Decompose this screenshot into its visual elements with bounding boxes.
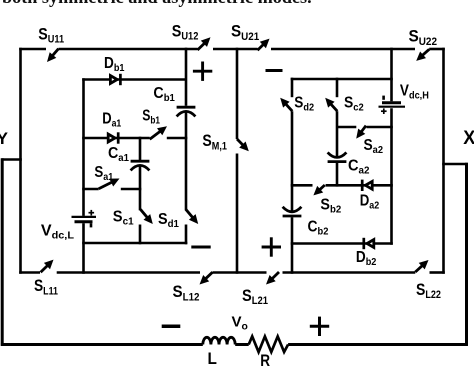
svg-text:SU11: SU11 (38, 25, 64, 46)
label S_a1 (94, 164, 113, 183)
svg-text:Sa2: Sa2 (364, 137, 384, 156)
switch S_L21 (266, 272, 279, 285)
label V_dc_H (400, 82, 429, 101)
label D_b2 (356, 249, 377, 268)
wire bottom rail (19, 271, 445, 274)
output plus (310, 317, 329, 336)
battery plus mark (89, 210, 95, 216)
label C_b2 (308, 219, 329, 238)
label S_d2 (294, 94, 314, 113)
battery V_dc,L (72, 217, 97, 222)
diode D_b2 (364, 238, 374, 249)
switch S_d1 (186, 209, 198, 224)
wire right module right conductor (442, 48, 445, 274)
wire Da1 Sb1 row (82, 137, 187, 140)
svg-text:Sd2: Sd2 (294, 94, 314, 113)
wire Sd1 lower (185, 225, 188, 245)
svg-text:L: L (208, 349, 217, 367)
wire Sd2 upper (291, 78, 294, 98)
switch S_L22 (415, 260, 428, 272)
svg-text:Ca2: Ca2 (348, 158, 370, 177)
wire top rail (19, 48, 445, 51)
svg-text:Cb1: Cb1 (153, 85, 175, 104)
label L (208, 349, 217, 367)
svg-text:Sc2: Sc2 (344, 95, 364, 114)
diode D_a2 (362, 180, 372, 191)
svg-text:Ca1: Ca1 (108, 145, 129, 164)
switch S_M1 (237, 139, 249, 151)
wire node X tap (442, 163, 468, 166)
svg-text:Da1: Da1 (102, 110, 121, 129)
capacitor C_b2 (283, 207, 302, 216)
svg-text:SL12: SL12 (173, 282, 200, 303)
svg-text:Db2: Db2 (356, 249, 377, 268)
label S_U12 (172, 21, 199, 42)
label S_L22 (416, 280, 441, 301)
svg-text:R: R (260, 351, 270, 367)
label D_b1 (104, 55, 125, 74)
svg-text:Sa1: Sa1 (94, 164, 113, 183)
svg-text:SL11: SL11 (34, 276, 58, 297)
switch S_b1 (150, 126, 167, 139)
label S_U21 (231, 22, 259, 43)
label V_dc_L (41, 223, 75, 242)
wire Ca2 bottom lead (336, 163, 339, 187)
label S_U22 (409, 27, 438, 48)
switch S_L11 (41, 260, 54, 273)
svg-text:Sb1: Sb1 (142, 108, 160, 127)
label S_c2 (344, 95, 364, 114)
wire Vdc_H top lead (390, 48, 393, 102)
wire Sd2 lower / Cb2 conductor (291, 111, 294, 212)
svg-text:Vdc,L: Vdc,L (41, 223, 75, 242)
wire Cb2 bottom lead (291, 217, 294, 273)
wire diode Db1 row (82, 78, 186, 81)
svg-text:Da2: Da2 (360, 193, 380, 212)
wire Cb1 top lead (185, 48, 188, 106)
diode D_a1 (108, 132, 118, 143)
wire internal rail left cell (82, 242, 187, 245)
wire left module left conductor (19, 48, 22, 274)
node Y label (0, 129, 9, 148)
svg-text:Sc1: Sc1 (113, 208, 134, 227)
wire load bottom left (1, 343, 203, 346)
label S_L11 (34, 276, 58, 297)
label S_L12 (173, 282, 200, 303)
module2 top minus (266, 69, 283, 72)
switch S_U12 (198, 37, 211, 50)
switch S_d2 (280, 98, 292, 111)
module2 bottom plus (262, 237, 281, 256)
wire internal top rail right cell (291, 78, 393, 81)
label C_a2 (348, 158, 370, 177)
label S_d1 (158, 211, 179, 230)
resistor R (249, 336, 288, 352)
node X label (463, 128, 474, 149)
inductor L (203, 337, 235, 344)
wire Ca1 top lead (139, 137, 142, 160)
label S_U11 (38, 25, 64, 46)
wire middle conductor upper (236, 48, 239, 139)
switch S_c2 (325, 98, 337, 111)
wire middle conductor lower (236, 154, 239, 274)
module1 minus (191, 245, 210, 248)
module1 plus (193, 62, 212, 81)
svg-text:Cb2: Cb2 (308, 219, 329, 238)
capacitor C_b1 (177, 107, 196, 116)
svg-text:Sd1: Sd1 (158, 211, 179, 230)
label Vo (232, 315, 248, 333)
wire Vdc_H bottom lead (390, 108, 393, 245)
caption text (clipped) (2, 0, 312, 8)
svg-text:Db1: Db1 (104, 55, 125, 74)
wire outer right (465, 163, 468, 346)
switch S_U11 (47, 49, 59, 62)
svg-text:Vo: Vo (232, 315, 248, 333)
label D_a2 (360, 193, 380, 212)
wire inner conductor left cell (82, 78, 85, 274)
switch S_b2 (313, 185, 324, 195)
battery H plus mark (381, 108, 387, 114)
label D_a1 (102, 110, 121, 129)
wire node Y tap (2, 158, 22, 161)
svg-text:X: X (463, 128, 474, 149)
capacitor C_a1 (131, 161, 150, 170)
label S_b2 (320, 197, 341, 216)
wire outer left (1, 158, 4, 346)
switch S_c1 (140, 209, 152, 224)
wire Sa1 row (82, 188, 141, 191)
label S_c1 (113, 208, 134, 227)
switch S_a2 (356, 126, 366, 139)
label S_b1 (142, 108, 160, 127)
output minus (162, 325, 181, 329)
label C_a1 (108, 145, 129, 164)
label S_M1 (202, 131, 227, 152)
diode D_b1 (110, 74, 120, 85)
svg-text:SU21: SU21 (231, 22, 259, 43)
svg-text:SU22: SU22 (409, 27, 438, 48)
label S_L21 (242, 286, 268, 307)
svg-text:Y: Y (0, 129, 9, 148)
svg-text:SM,1: SM,1 (202, 131, 227, 152)
svg-text:SU12: SU12 (172, 21, 199, 42)
svg-text:Vdc,H: Vdc,H (400, 82, 429, 101)
wire Sc1 lower (139, 225, 142, 245)
switch S_U21 (258, 39, 270, 51)
svg-text:SL21: SL21 (242, 286, 268, 307)
label C_b1 (153, 85, 175, 104)
label S_a2 (364, 137, 384, 156)
wire Sa2 row (337, 126, 393, 129)
battery V_dc,H (379, 103, 406, 107)
wire load bottom right (288, 343, 468, 346)
svg-text:SL22: SL22 (416, 280, 441, 301)
wire Cb1 bottom lead (185, 111, 188, 211)
wire diode Db2 row (291, 242, 393, 245)
wire Sc2 upper (336, 78, 339, 98)
wire Da2 Sb2 row (291, 184, 393, 187)
switch S_L12 (200, 272, 213, 284)
label R (260, 351, 270, 367)
capacitor C_a2 (328, 152, 347, 161)
battery i mark (90, 223, 93, 227)
svg-text:Sb2: Sb2 (320, 197, 341, 216)
switch S_U22 (416, 49, 429, 61)
switch S_a1 (99, 179, 120, 189)
wire Ca1 bottom lead (139, 165, 142, 211)
wire load middle (235, 343, 249, 346)
battery H i mark (382, 96, 385, 100)
wire Sc2 lower (336, 111, 339, 157)
